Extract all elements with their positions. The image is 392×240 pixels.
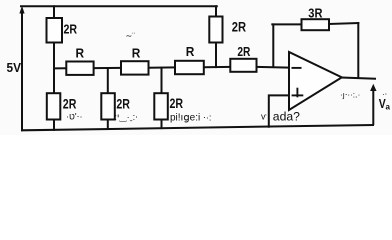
- svg-text:2R: 2R: [237, 44, 250, 59]
- svg-text:a: a: [386, 103, 391, 112]
- svg-text:·טʹ⋅·: ·טʹ⋅·: [66, 112, 82, 122]
- wire: feedback top left: [272, 23, 301, 25]
- svg-text:рі!ıցе:і: рі!ıցе:і: [170, 112, 200, 123]
- svg-text:ada?: ada?: [273, 109, 300, 123]
- wire: feedback top right: [329, 23, 358, 24]
- svg-text:R: R: [132, 46, 141, 60]
- op-amp inverting symbol -: [292, 67, 302, 69]
- resistor R (ladder series 2): [121, 61, 149, 74]
- source arrow 5V: [19, 6, 24, 14]
- svg-text:R: R: [76, 47, 85, 61]
- wire: op-amp output: [342, 78, 376, 79]
- wire: op-amp noninverting input: [269, 95, 289, 126]
- resistor 2R (ladder branch 1 bottom): [47, 93, 61, 119]
- svg-text:2R: 2R: [232, 20, 246, 36]
- svg-text:⋅·:: ⋅·:: [203, 113, 211, 123]
- op-amp noninverting symbol +: [292, 94, 304, 96]
- resistor 2R (series to op-amp input): [230, 59, 256, 72]
- output arrow Va: [372, 90, 374, 125]
- resistor 2R (ladder branch 1 top): [47, 18, 63, 43]
- svg-text:3R: 3R: [308, 6, 323, 21]
- svg-text:ѵ: ѵ: [261, 111, 267, 121]
- svg-text:∼¨: ∼¨: [126, 32, 136, 41]
- wire: ladder branch 2 vertical: [107, 68, 109, 93]
- resistor 2R (ladder branch 2 bottom): [101, 93, 115, 119]
- resistor 2R (ladder branch 4 from top rail): [209, 17, 222, 43]
- svg-text:·յ⋅··:․·: ·յ⋅··:․·: [340, 91, 360, 100]
- svg-text::י‿·ˍ:⋅: :י‿·ˍ:⋅: [115, 112, 138, 122]
- resistor 3R (feedback): [302, 19, 330, 30]
- svg-text:2R: 2R: [63, 95, 77, 111]
- svg-text:2R: 2R: [116, 95, 130, 111]
- svg-text:5V: 5V: [7, 60, 22, 75]
- wire: feedback right drop to output: [357, 23, 359, 78]
- watermark text faint: [66, 32, 387, 124]
- wire: ladder branch 3 vertical: [161, 68, 163, 94]
- wire: op-amp inverting feedback riser: [272, 24, 274, 66]
- op-amp U1 triangle: [289, 52, 342, 110]
- resistor R (ladder series 3): [175, 61, 204, 74]
- wire: bottom rail (sloped): [22, 125, 373, 130]
- svg-text:2R: 2R: [64, 22, 78, 37]
- svg-text:2R: 2R: [170, 95, 184, 111]
- wire: middle node line: [54, 67, 66, 69]
- resistor R (ladder series 1): [66, 62, 93, 75]
- wire: 5V source vertical: [21, 14, 23, 130]
- svg-text:R: R: [186, 45, 195, 59]
- wire: ladder branch 1 vertical (top box to lower box): [53, 6, 55, 18]
- resistor 2R (ladder branch 3 bottom): [154, 93, 168, 119]
- wire: ladder branch 4 vertical (from top rail): [215, 6, 217, 16]
- wire: top rail: [21, 5, 217, 7]
